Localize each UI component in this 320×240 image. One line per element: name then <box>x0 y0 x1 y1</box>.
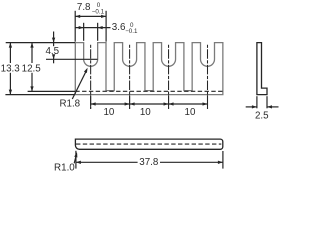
svg-text:10: 10 <box>103 107 114 118</box>
slot centerline tooth 1 <box>90 45 92 109</box>
dim 13.3/12.5 shared top extension line <box>6 42 75 44</box>
pitch extension line tooth 2 <box>129 95 131 109</box>
svg-text:10: 10 <box>140 107 151 118</box>
dim 13.3 <box>9 43 11 63</box>
svg-text:10: 10 <box>185 107 196 118</box>
svg-text:2.5: 2.5 <box>255 111 269 122</box>
leader R1.0 <box>74 154 76 164</box>
svg-text:R1.0: R1.0 <box>54 162 75 173</box>
pitch extension line tooth 4 <box>207 95 209 109</box>
svg-text:4.5: 4.5 <box>45 46 59 57</box>
pitch dim arrows <box>91 102 96 105</box>
slot centerline tooth 3 <box>168 45 170 109</box>
dim 12.5 <box>31 43 33 63</box>
side view (L cross-section) <box>257 43 267 95</box>
dims 10 pitch x3: dimension line <box>91 103 208 105</box>
slot centerline tooth 4 <box>207 45 209 109</box>
svg-text:3.6: 3.6 <box>112 22 126 33</box>
svg-text:−0.1: −0.1 <box>125 28 138 35</box>
svg-text:7.8: 7.8 <box>77 2 91 13</box>
comb busbar outline (front view) <box>75 43 223 95</box>
bottom view bar outline <box>75 139 222 149</box>
pitch extension line tooth 3 <box>168 95 170 109</box>
bottom view centerline (dashed) <box>76 143 221 145</box>
slot centerline tooth 2 <box>129 45 131 109</box>
dim 12.5 bottom extension line <box>28 90 75 92</box>
svg-text:37.8: 37.8 <box>139 157 159 168</box>
dim 13.3 bottom extension line <box>5 94 75 96</box>
dim 4.5 bottom extension line (slot depth) <box>46 58 98 60</box>
svg-text:−0.1: −0.1 <box>92 8 105 15</box>
dim 37.8 <box>75 151 77 169</box>
dim 7.8 0/-0.1 <box>74 11 76 42</box>
dim 2.5 <box>256 96 258 108</box>
bend line (dashed) front view <box>75 90 223 92</box>
dim 4.5 <box>53 32 55 47</box>
pitch extension line tooth 1 <box>90 95 92 109</box>
svg-text:R1.8: R1.8 <box>59 99 80 110</box>
dim 3.6 0/-0.1 <box>83 23 85 41</box>
svg-text:12.5: 12.5 <box>22 64 42 75</box>
svg-text:13.3: 13.3 <box>1 64 21 75</box>
leader R1.8 <box>72 70 86 99</box>
